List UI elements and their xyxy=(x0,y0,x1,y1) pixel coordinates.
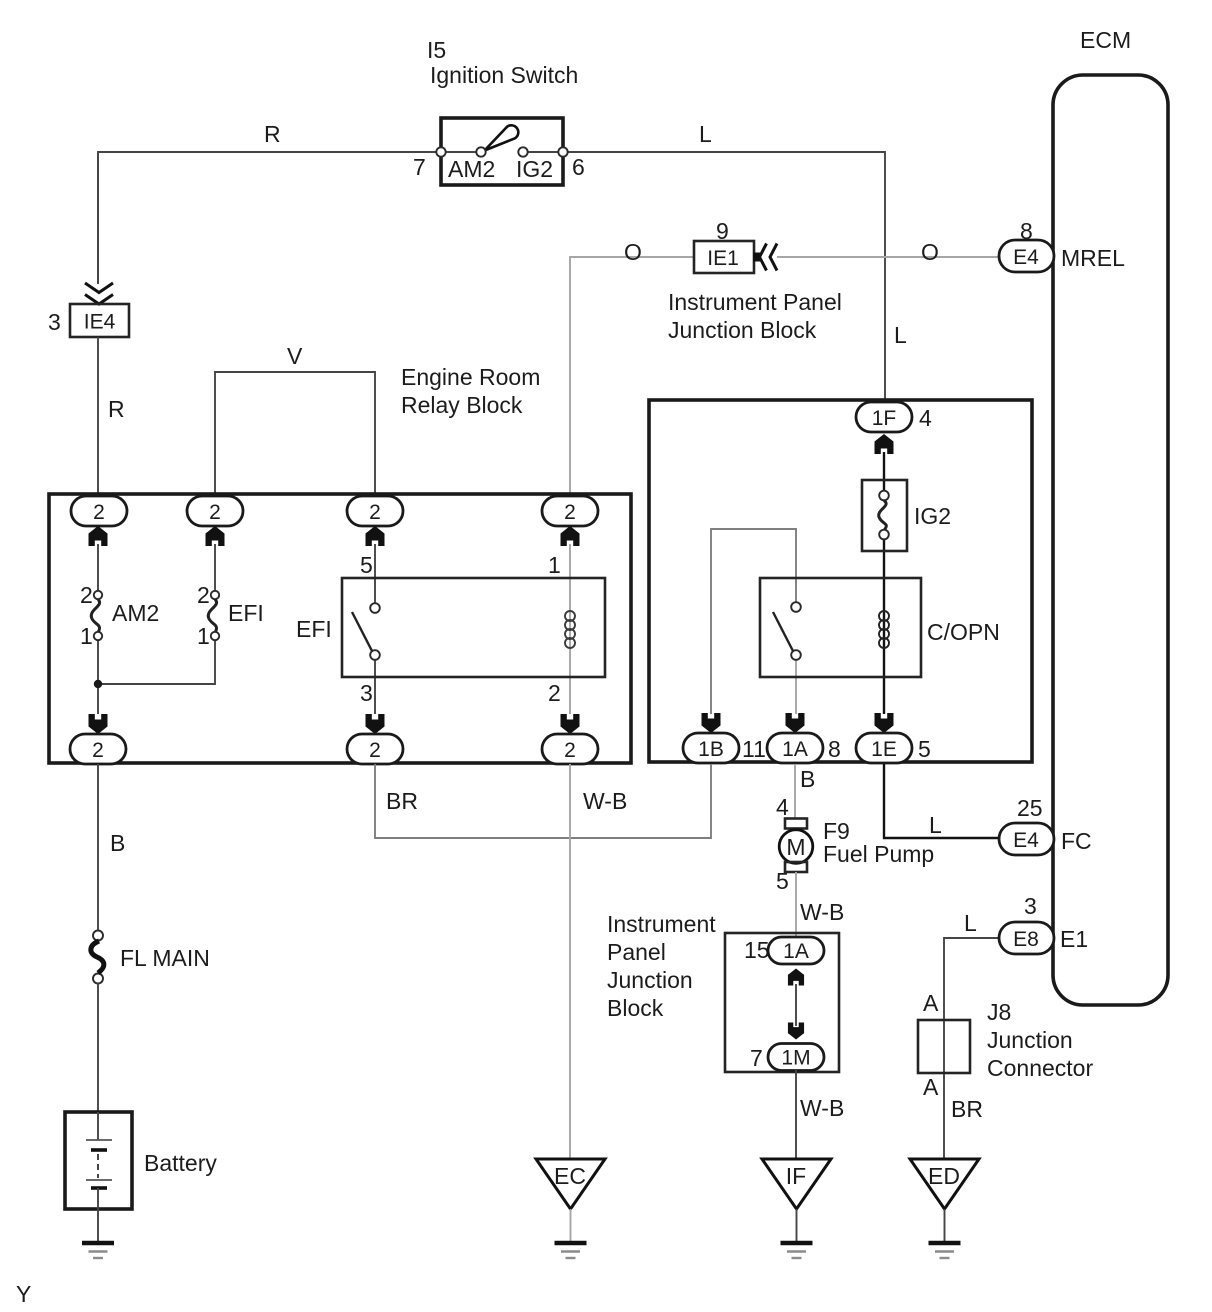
oval 2 top col3 xyxy=(347,496,403,526)
svg-text:ED: ED xyxy=(928,1163,960,1189)
svg-text:A: A xyxy=(923,990,939,1016)
svg-text:2: 2 xyxy=(369,739,381,762)
svg-text:L: L xyxy=(964,910,977,936)
svg-text:1: 1 xyxy=(548,552,561,578)
fusible link FL MAIN top pin xyxy=(93,931,103,941)
ED ground stem xyxy=(944,1209,946,1241)
ECM body rounded rect xyxy=(1053,75,1168,1005)
svg-text:2: 2 xyxy=(209,501,221,524)
svg-text:M: M xyxy=(786,834,805,860)
battery top stem xyxy=(97,1112,99,1140)
svg-text:5: 5 xyxy=(360,552,373,578)
fuse EFI top pin xyxy=(211,591,219,599)
relay col1 stem upper xyxy=(97,544,99,591)
svg-text:MREL: MREL xyxy=(1061,245,1125,271)
svg-text:IG2: IG2 xyxy=(914,503,951,529)
svg-text:EFI: EFI xyxy=(228,600,264,626)
ground symbol IF xyxy=(781,1243,813,1258)
wire R column to IE4 xyxy=(97,152,99,284)
svg-text:Battery: Battery xyxy=(144,1150,217,1176)
svg-text:8: 8 xyxy=(828,736,841,762)
wire FL MAIN to battery xyxy=(97,983,99,1112)
svg-text:1F: 1F xyxy=(872,407,897,430)
svg-text:2: 2 xyxy=(369,501,381,524)
svg-text:2: 2 xyxy=(197,582,210,608)
connector IE4 box xyxy=(70,304,129,337)
svg-text:FC: FC xyxy=(1061,828,1092,854)
oval 2 top col1 xyxy=(71,496,127,526)
ground battery xyxy=(82,1243,114,1258)
fuel pump terminal bottom xyxy=(785,862,807,872)
wire O from IE1 chevron to ECM E4 MREL xyxy=(777,256,999,258)
C/OPN switch bottom contact xyxy=(791,650,801,660)
svg-text:V: V xyxy=(287,343,303,369)
EFI relay box xyxy=(342,578,605,677)
oval 2 top col2 xyxy=(187,496,243,526)
oval 1A xyxy=(767,733,823,763)
svg-text:Relay Block: Relay Block xyxy=(401,392,523,418)
junction dot xyxy=(94,680,102,688)
wire 1B path xyxy=(711,529,796,714)
svg-text:W-B: W-B xyxy=(583,788,627,814)
svg-text:BR: BR xyxy=(386,788,418,814)
C/OPN coil xyxy=(879,611,889,648)
oval 2 bottom col4 xyxy=(542,734,598,764)
C/OPN switch blade xyxy=(773,612,793,651)
arrow up below 1A lower xyxy=(788,969,804,986)
svg-text:L: L xyxy=(699,121,712,147)
ignition switch I5 box xyxy=(441,118,563,185)
wire 1F to IG2 fuse xyxy=(883,452,885,491)
svg-text:IE4: IE4 xyxy=(84,311,116,334)
svg-text:1: 1 xyxy=(197,623,210,649)
svg-text:AM2: AM2 xyxy=(448,156,495,182)
oval 2 top col4 xyxy=(542,496,598,526)
svg-text:O: O xyxy=(624,239,642,265)
svg-text:2: 2 xyxy=(80,582,93,608)
svg-text:Junction: Junction xyxy=(987,1027,1073,1053)
svg-text:J8: J8 xyxy=(987,999,1011,1025)
relay col3 stem lower pin3 xyxy=(374,660,376,714)
instrument panel junction block (upper right) box xyxy=(649,400,1032,762)
svg-text:6: 6 xyxy=(572,154,585,180)
ground symbol EC xyxy=(555,1243,587,1258)
fuse IG2 squiggle xyxy=(879,501,887,530)
svg-text:3: 3 xyxy=(360,680,373,706)
svg-text:4: 4 xyxy=(919,405,932,431)
svg-text:5: 5 xyxy=(776,868,789,894)
oval 1F xyxy=(856,402,912,432)
battery bottom stem xyxy=(97,1188,99,1241)
EC ground stem xyxy=(570,1209,572,1241)
svg-text:FL MAIN: FL MAIN xyxy=(120,945,210,971)
connector IE4 chevrons xyxy=(85,283,113,304)
svg-text:BR: BR xyxy=(951,1096,983,1122)
arrow up below 1F xyxy=(875,434,894,454)
wire battery column B xyxy=(97,764,99,931)
arrow up col1 xyxy=(89,526,108,546)
wire FC from 1E to E4 xyxy=(884,764,999,838)
svg-text:IG2: IG2 xyxy=(516,156,553,182)
battery box xyxy=(65,1112,132,1209)
svg-text:Junction: Junction xyxy=(607,967,693,993)
C/OPN relay box xyxy=(760,578,921,677)
oval 2 bottom col3 xyxy=(347,734,403,764)
fuel pump column wire upper xyxy=(794,764,796,819)
svg-text:IF: IF xyxy=(786,1163,806,1189)
svg-text:Instrument: Instrument xyxy=(607,911,716,937)
svg-text:7: 7 xyxy=(750,1045,763,1071)
battery cell 2 long plate xyxy=(86,1179,112,1181)
pin IG2 circle xyxy=(518,147,527,156)
wire O from IE1 left down to relay block column 4 xyxy=(570,257,693,496)
arrow down col1 xyxy=(89,714,108,734)
svg-text:EC: EC xyxy=(554,1163,586,1189)
connector IE1 apex block xyxy=(753,253,760,262)
svg-text:Instrument Panel: Instrument Panel xyxy=(668,289,842,315)
pin AM2 circle xyxy=(476,147,485,156)
wire 1M to IF ground xyxy=(795,1070,797,1159)
svg-text:4: 4 xyxy=(776,794,789,820)
svg-text:Fuel Pump: Fuel Pump xyxy=(823,841,934,867)
svg-text:Junction Block: Junction Block xyxy=(668,317,817,343)
svg-text:Panel: Panel xyxy=(607,939,666,965)
svg-text:W-B: W-B xyxy=(800,899,844,925)
svg-text:E8: E8 xyxy=(1013,928,1039,951)
svg-text:1M: 1M xyxy=(781,1047,810,1070)
wire: inside ignition switch IG2 to pin6 xyxy=(523,151,563,153)
svg-text:2: 2 xyxy=(564,501,576,524)
arrow down 1B xyxy=(702,713,721,733)
svg-text:Ignition Switch: Ignition Switch xyxy=(430,62,578,88)
ECM pin E4 MREL oval xyxy=(999,240,1054,272)
ground triangle IF xyxy=(762,1159,831,1209)
fuse EFI bottom pin xyxy=(211,632,219,640)
svg-text:5: 5 xyxy=(918,736,931,762)
svg-text:11: 11 xyxy=(742,736,766,762)
fuel pump terminal top xyxy=(785,819,807,829)
wire between arrows lower block xyxy=(795,984,797,1026)
battery dashed link xyxy=(97,1154,99,1178)
oval 1M xyxy=(768,1044,824,1071)
connector IE1 box xyxy=(694,241,754,273)
pin 7 circle xyxy=(436,147,445,156)
svg-text:R: R xyxy=(264,121,281,147)
oval 1E xyxy=(856,733,912,763)
junction connector J8 box xyxy=(918,1020,970,1073)
svg-text:L: L xyxy=(894,322,907,348)
pin 6 circle xyxy=(558,147,567,156)
arrow down col3 xyxy=(366,714,385,734)
svg-text:L: L xyxy=(929,812,942,838)
svg-text:15: 15 xyxy=(744,937,770,963)
fuse IG2 top pin xyxy=(879,491,889,501)
svg-text:7: 7 xyxy=(413,154,426,180)
fuse AM2 squiggle xyxy=(91,600,99,632)
arrow down 1E xyxy=(875,713,894,733)
ECM pin E4 FC oval xyxy=(999,823,1054,855)
svg-text:1B: 1B xyxy=(698,738,724,761)
relay col2 stem upper xyxy=(214,544,216,591)
svg-text:2: 2 xyxy=(93,501,105,524)
svg-text:O: O xyxy=(921,239,939,265)
fuse IG2 box xyxy=(862,480,907,551)
battery cell 2 short plate xyxy=(91,1186,107,1190)
fuse EFI squiggle xyxy=(208,600,216,632)
svg-text:1: 1 xyxy=(80,623,93,649)
wire: ignition switch to L vertical down to 1F xyxy=(563,152,885,402)
svg-text:I5: I5 xyxy=(427,37,446,63)
relay col3 stem upper pin5 xyxy=(374,544,376,603)
fuse AM2 bottom pin xyxy=(94,632,102,640)
battery cell 1 long plate xyxy=(86,1139,112,1141)
wire E1 from E8 to J8 to ED xyxy=(944,938,999,1159)
relay col1 stem lower xyxy=(97,640,99,714)
svg-text:W-B: W-B xyxy=(800,1095,844,1121)
fusible link FL MAIN squiggle xyxy=(91,941,104,973)
EFI relay switch bottom contact xyxy=(370,650,380,660)
svg-text:1A: 1A xyxy=(782,738,808,761)
arrow down above 1M xyxy=(788,1023,804,1040)
wire: main feed horizontal from battery column to ignition switch xyxy=(98,152,441,283)
wire IE4 to relay block xyxy=(97,337,99,496)
svg-text:3: 3 xyxy=(1024,893,1037,919)
ignition switch key symbol xyxy=(485,125,519,150)
svg-text:3: 3 xyxy=(48,309,61,335)
svg-text:1E: 1E xyxy=(871,738,897,761)
fuel pump column wire lower xyxy=(795,872,797,937)
IF ground stem xyxy=(796,1209,798,1241)
svg-text:E4: E4 xyxy=(1013,829,1039,852)
wire C/OPN switch lower stem xyxy=(795,660,797,714)
wire W-B to EC ground xyxy=(569,764,571,1159)
svg-text:AM2: AM2 xyxy=(112,600,159,626)
svg-text:E1: E1 xyxy=(1060,926,1088,952)
arrow down 1A xyxy=(786,713,805,733)
wire BR from relay block to 1B xyxy=(375,764,711,838)
svg-text:ECM: ECM xyxy=(1080,27,1131,53)
svg-text:EFI: EFI xyxy=(296,616,332,642)
arrow up col4 xyxy=(561,526,580,546)
svg-text:B: B xyxy=(110,830,125,856)
svg-text:Block: Block xyxy=(607,995,664,1021)
C/OPN switch top contact xyxy=(791,602,801,612)
connector IE1 chevrons xyxy=(760,244,778,271)
instrument panel junction block (lower) box xyxy=(725,933,839,1072)
svg-text:E4: E4 xyxy=(1013,246,1039,269)
oval 1A lower xyxy=(768,937,824,964)
svg-text:2: 2 xyxy=(548,680,561,706)
arrow up col3 xyxy=(366,526,385,546)
relay col4 stem upper pin1 xyxy=(569,544,571,578)
relay col2 stem lower to junction xyxy=(98,640,215,684)
EFI relay switch top contact xyxy=(370,603,380,613)
fusible link FL MAIN bottom pin xyxy=(93,974,103,984)
wire V bridge xyxy=(215,372,375,496)
EFI relay switch blade xyxy=(352,612,372,651)
svg-text:2: 2 xyxy=(564,739,576,762)
ground triangle ED xyxy=(910,1159,979,1209)
oval 1B xyxy=(683,733,739,763)
arrow down col4 xyxy=(561,714,580,734)
svg-text:Y: Y xyxy=(16,1281,31,1307)
battery cell 1 short plate xyxy=(91,1148,107,1152)
svg-text:1A: 1A xyxy=(783,940,809,963)
svg-text:C/OPN: C/OPN xyxy=(927,619,1000,645)
fuse AM2 top pin xyxy=(94,591,102,599)
relay col4 stem through coil pin2 xyxy=(569,578,571,714)
oval 2 bottom col1 xyxy=(70,734,126,764)
ECM pin E8 oval xyxy=(999,922,1054,954)
fuel pump motor circle xyxy=(779,830,813,864)
EFI relay coil xyxy=(565,611,575,648)
ground symbol ED xyxy=(929,1243,961,1258)
ground triangle EC xyxy=(536,1159,605,1209)
fuse IG2 bottom pin xyxy=(879,530,889,540)
svg-text:Engine Room: Engine Room xyxy=(401,364,540,390)
svg-text:IE1: IE1 xyxy=(707,247,739,270)
svg-text:Connector: Connector xyxy=(987,1055,1093,1081)
wire IG2 fuse to C/OPN coil to 1E xyxy=(883,540,885,714)
wire: inside ignition switch pin7 to AM2 xyxy=(441,151,481,153)
svg-text:R: R xyxy=(108,396,125,422)
svg-text:A: A xyxy=(923,1074,939,1100)
engine room relay block box xyxy=(49,494,631,763)
svg-text:25: 25 xyxy=(1017,795,1043,821)
svg-text:B: B xyxy=(800,766,815,792)
svg-text:2: 2 xyxy=(92,739,104,762)
arrow up col2 xyxy=(206,526,225,546)
